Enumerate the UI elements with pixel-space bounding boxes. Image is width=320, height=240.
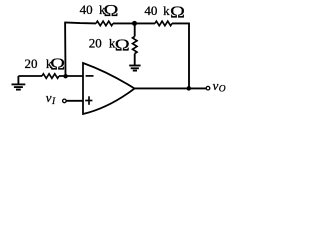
svg-text:20: 20 (25, 56, 38, 71)
wire: top rail between R1 and node B (113, 22, 135, 24)
terminal circle: vO output (206, 86, 210, 90)
svg-text:40: 40 (144, 3, 157, 18)
wire: top rail between node B and R2 (135, 22, 156, 24)
op-amp minus sign (inverting input) (86, 75, 94, 77)
node C (junction of output and feedback) (187, 86, 192, 91)
wire: op-amp output to vO terminal (through node C) (135, 87, 206, 89)
label: vO (213, 78, 226, 94)
label: 20 kOhm for R4 (25, 55, 66, 74)
op-amp plus sign (non-inverting input) (85, 96, 92, 105)
svg-text:Ω: Ω (50, 55, 65, 74)
wire: R4 to op-amp inverting input (through node A) (59, 75, 83, 77)
label: vI (46, 90, 56, 107)
label: 40 kOhm for R1 (80, 1, 119, 20)
wire: left feedback vertical from node A up to top rail (64, 23, 66, 77)
node B (junction of R1, R2, R3) (132, 21, 137, 26)
wire: vI terminal to non-inverting input (66, 100, 83, 102)
resistor R2 40 kOhm (top right zigzag) (155, 21, 172, 26)
resistor R1 40 kOhm (top left zigzag) (96, 21, 113, 26)
ground symbol (left, input side) with stub (12, 76, 26, 90)
wire: R3 top lead from node B (134, 23, 136, 36)
wire: top rail left segment to R1 (64, 22, 96, 23)
svg-text:20: 20 (89, 36, 102, 51)
wire: top rail right segment and right vertical down to node C (172, 23, 189, 88)
svg-text:v: v (213, 78, 219, 93)
terminal circle: vI input (63, 99, 67, 103)
resistor R4 20 kOhm (horizontal zigzag, inverting input) (42, 74, 59, 79)
svg-text:40: 40 (80, 2, 93, 17)
wire: R3 bottom lead to ground (134, 54, 136, 66)
svg-text:Ω: Ω (104, 1, 119, 20)
svg-text:Ω: Ω (170, 3, 185, 22)
svg-text:O: O (219, 84, 226, 94)
svg-text:Ω: Ω (115, 36, 130, 55)
svg-text:v: v (46, 90, 52, 105)
label: 20 kOhm for R3 (89, 36, 130, 55)
op-amp U1 triangle (83, 63, 135, 114)
label: 40 kOhm for R2 (144, 3, 185, 22)
node A (junction of R4, feedback, inverting input) (63, 74, 67, 78)
resistor R3 20 kOhm (vertical zigzag) (133, 37, 138, 54)
ground symbol (below R3) (129, 66, 140, 71)
wire: left ground stub to R4 (18, 75, 42, 77)
